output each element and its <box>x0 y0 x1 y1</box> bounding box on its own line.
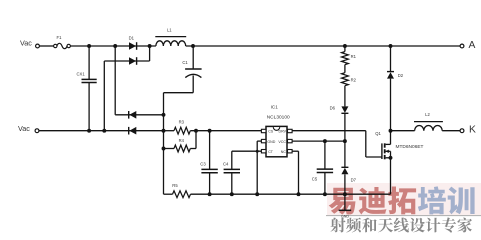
svg-text:CT: CT <box>268 150 274 154</box>
svg-text:C4: C4 <box>223 161 229 166</box>
svg-text:NCL30100: NCL30100 <box>267 114 290 120</box>
svg-text:GND: GND <box>267 140 275 144</box>
svg-text:F1: F1 <box>57 35 63 40</box>
svg-text:R1: R1 <box>351 54 357 59</box>
svg-text:MTD6N06ET: MTD6N06ET <box>396 144 424 150</box>
svg-text:D7: D7 <box>351 178 357 183</box>
svg-text:D6: D6 <box>330 106 336 111</box>
svg-text:C1: C1 <box>182 60 188 65</box>
svg-text:GND: GND <box>341 215 349 219</box>
svg-text:K: K <box>469 124 476 135</box>
svg-text:L2: L2 <box>425 112 430 117</box>
svg-text:C5: C5 <box>312 177 318 182</box>
svg-text:R4: R4 <box>179 138 185 143</box>
svg-text:CX1: CX1 <box>77 72 86 77</box>
svg-text:Vac: Vac <box>18 124 30 133</box>
svg-text:Vac: Vac <box>20 38 32 47</box>
svg-text:D2: D2 <box>398 73 404 78</box>
svg-text:IC1: IC1 <box>271 104 279 109</box>
svg-text:DRV: DRV <box>278 130 286 134</box>
svg-text:R3: R3 <box>179 119 185 124</box>
svg-text:VCC: VCC <box>278 140 286 144</box>
svg-text:C3: C3 <box>200 161 206 166</box>
svg-text:D1: D1 <box>129 35 135 40</box>
svg-text:CS: CS <box>268 130 274 134</box>
svg-text:R2: R2 <box>351 77 357 82</box>
svg-text:Q1: Q1 <box>375 131 381 136</box>
svg-text:NC: NC <box>281 150 287 154</box>
svg-text:A: A <box>469 40 476 51</box>
svg-text:L1: L1 <box>167 27 172 32</box>
svg-text:R5: R5 <box>172 183 178 188</box>
